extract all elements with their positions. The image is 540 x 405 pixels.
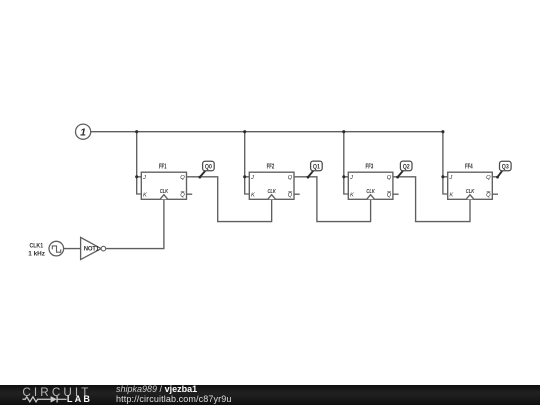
svg-text:FF4: FF4 — [465, 163, 473, 171]
svg-text:Q: Q — [180, 175, 185, 181]
svg-text:FF3: FF3 — [366, 163, 374, 171]
source CLK1 square-wave generator — [28, 241, 63, 257]
svg-text:Q: Q — [288, 175, 293, 181]
junction on rail at FF3 feed — [342, 130, 345, 133]
wire FF1.Q to FF2.CLK — [187, 177, 272, 222]
flip-flop U2 body FF2 — [249, 163, 294, 200]
svg-text:CLK: CLK — [366, 189, 375, 195]
wire FF1 Qbar stub — [187, 193, 193, 195]
wire FF3.Q to FF4.CLK — [393, 177, 470, 222]
wire top rail from source to FF4 — [91, 131, 443, 133]
FF2 clock edge triangle — [268, 195, 276, 200]
svg-text:J: J — [250, 175, 254, 181]
junction on rail at FF2 feed — [243, 130, 246, 133]
svg-text:LAB: LAB — [67, 394, 92, 404]
svg-text:Q1: Q1 — [313, 163, 320, 170]
svg-text:Q: Q — [387, 193, 392, 199]
gate NOT1 — [81, 237, 106, 259]
svg-text:CLK: CLK — [267, 189, 276, 195]
wire FF4 Qbar stub — [492, 193, 498, 195]
svg-text:CLK: CLK — [160, 189, 169, 195]
source logic 1 — [76, 124, 91, 139]
FF1 clock edge triangle — [160, 195, 168, 200]
flip-flop U4 body FF4 — [448, 163, 493, 200]
junction at FF3 J pin — [342, 175, 345, 178]
svg-text:J: J — [349, 175, 353, 181]
wire FF4 J/K feed — [443, 132, 448, 194]
wire FF3 Qbar stub — [393, 193, 399, 195]
svg-text:FF2: FF2 — [267, 163, 275, 171]
FF4 clock edge triangle — [466, 195, 474, 200]
wire FF2.Q to FF3.CLK — [294, 177, 371, 222]
svg-text:Q0: Q0 — [205, 164, 212, 171]
svg-text:Q: Q — [486, 175, 491, 181]
junction at FF1 J pin — [135, 175, 138, 178]
CircuitLab logo — [0, 385, 110, 405]
flag Q0 — [198, 161, 214, 178]
svg-text:J: J — [448, 175, 452, 181]
wire FF3 J/K feed — [344, 132, 349, 194]
flag Q1 — [307, 161, 323, 178]
junction at FF2 J pin — [243, 175, 246, 178]
wire CLK1 to NOT1 — [64, 248, 81, 250]
wire FF4.Q stub — [492, 176, 497, 178]
wire FF2 J/K feed — [245, 132, 250, 194]
flag Q2 — [396, 161, 412, 178]
wire FF1 J/K feed — [137, 132, 142, 194]
wire NOT1 output to FF1.CLK — [106, 199, 164, 248]
junction on rail at FF1 feed — [135, 130, 138, 133]
flag Q3 — [496, 161, 511, 178]
svg-text:Q: Q — [288, 193, 293, 199]
svg-text:J: J — [142, 175, 146, 181]
svg-text:Q2: Q2 — [403, 163, 410, 170]
svg-text:NOT1: NOT1 — [84, 247, 100, 253]
svg-text:Q: Q — [486, 193, 491, 199]
svg-text:Q: Q — [387, 175, 392, 181]
FF3 clock edge triangle — [367, 195, 375, 200]
svg-text:CLK1: CLK1 — [29, 243, 43, 250]
svg-text:Q: Q — [180, 193, 185, 199]
wire FF2 Qbar stub — [294, 193, 300, 195]
flip-flop U3 body FF3 — [348, 163, 393, 200]
svg-text:1 kHz: 1 kHz — [28, 250, 45, 257]
svg-text:FF1: FF1 — [159, 163, 167, 171]
junction at FF4 J pin — [441, 175, 444, 178]
footer bar — [0, 385, 540, 405]
svg-text:1: 1 — [80, 127, 86, 139]
flip-flop U1 body FF1 — [141, 163, 186, 200]
svg-text:Q3: Q3 — [502, 164, 509, 171]
svg-text:CLK: CLK — [466, 189, 475, 195]
footer text — [116, 385, 232, 405]
junction on rail at FF4 feed — [441, 130, 444, 133]
